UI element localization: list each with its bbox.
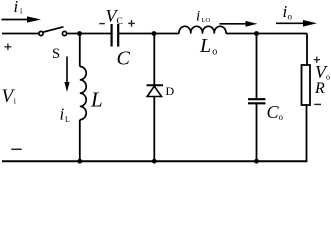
wire from diode D anode to bottom rail <box>153 97 155 162</box>
diode D triangle (pointing up) <box>147 86 161 96</box>
wire from Co node down to capacitor Co <box>256 34 258 100</box>
wire from resistor R to bottom rail corner <box>306 105 308 161</box>
svg-text:i: i <box>196 9 200 25</box>
wire from Lo to output corner <box>226 33 307 35</box>
wire from top node down to inductor L <box>79 34 81 67</box>
junction node at switch/L/C <box>77 31 82 36</box>
wire right vertical from corner to resistor R <box>306 34 308 66</box>
label minus of V_i <box>11 148 21 150</box>
junction node Co/bottom rail <box>254 159 259 164</box>
switch S right terminal <box>62 31 66 35</box>
svg-text:LO: LO <box>201 17 210 24</box>
junction node at Co <box>254 31 259 36</box>
svg-text:i: i <box>60 105 65 124</box>
wire from capacitor Co to bottom rail <box>256 104 258 161</box>
junction node L/bottom rail <box>77 159 82 164</box>
switch S blade <box>44 27 64 32</box>
inductor L (vertical coil) <box>80 67 86 120</box>
svg-text:o: o <box>326 73 330 82</box>
svg-text:C: C <box>117 17 123 27</box>
capacitor C right plate <box>117 24 119 47</box>
capacitor Co top plate <box>248 98 266 100</box>
wire bottom rail <box>2 160 307 162</box>
label minus of V_o <box>314 103 321 105</box>
label plus of V_o <box>314 57 320 63</box>
svg-text:o: o <box>288 11 293 21</box>
wire from inductor L to bottom rail <box>79 120 81 161</box>
junction node D/bottom rail <box>152 159 157 164</box>
svg-text:C: C <box>117 48 131 70</box>
current arrow i_Lo <box>220 21 258 27</box>
label plus of V_C <box>128 20 135 27</box>
capacitor Co bottom plate <box>248 102 266 104</box>
current arrow i_L (downward) <box>64 57 69 93</box>
svg-text:L: L <box>90 88 103 112</box>
switch S left terminal <box>39 31 43 35</box>
resistor R (rectangle) <box>302 65 311 105</box>
current arrow i_i <box>2 16 42 22</box>
wire top-right corner joining rail <box>306 33 308 36</box>
wire from capacitor C to node with D <box>118 33 179 35</box>
svg-text:R: R <box>314 80 325 97</box>
label minus of V_C <box>99 23 105 25</box>
svg-text:D: D <box>166 84 175 98</box>
svg-text:o: o <box>212 46 217 57</box>
svg-text:L: L <box>65 115 70 124</box>
junction node at C/D/Lo <box>152 31 157 36</box>
label plus of V_i <box>5 43 12 50</box>
svg-text:L: L <box>199 35 211 57</box>
diode D cathode bar <box>147 84 164 86</box>
current arrow i_o <box>276 20 317 27</box>
svg-text:o: o <box>279 112 284 122</box>
svg-text:i: i <box>14 0 19 16</box>
wire from switch to node with L <box>67 33 111 35</box>
svg-text:S: S <box>52 46 60 62</box>
wire top-left from source to switch <box>2 33 39 35</box>
inductor Lo (horizontal coil) <box>179 26 226 33</box>
capacitor C left plate <box>110 24 112 47</box>
wire from top node down to diode D cathode <box>153 34 155 86</box>
